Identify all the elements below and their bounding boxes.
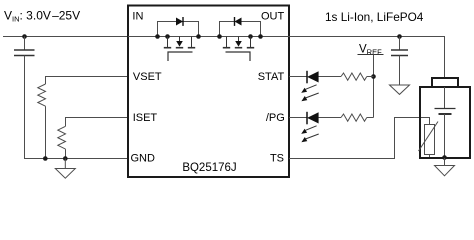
battery pack BT1 outline [420,87,470,158]
node RISET rail junction dot [63,156,68,161]
wire input cap bottom lead to ground rail [24,56,26,159]
svg-text:OUT: OUT [261,10,285,22]
wire input cap top lead [24,37,26,51]
LED D3 (STAT) [306,71,308,84]
wire RISET bottom to rail [65,149,67,158]
wire R2 to VREF vertical [367,117,374,119]
wire output cap bottom lead [399,56,401,86]
wire battery ground stub [444,158,446,166]
wire battery positive lead [444,87,446,109]
LED D3 emission arrows [301,85,319,101]
resistor R2 (/PG) [341,114,367,121]
wire ground stub [64,159,66,169]
wire VSET pin to resistor [46,77,129,85]
transistor Q2 body-diode loop [220,22,261,37]
node Q2 loop-right dot [258,34,263,39]
node Q2 loop-left dot [217,34,222,39]
wire ISET pin to resistor [66,118,129,127]
node Q1 source dot [165,34,170,39]
node input junction dot [22,34,27,39]
transistor Q1 body-diode loop [158,22,199,37]
svg-text:VIN: 3.0V–25V: VIN: 3.0V–25V [4,9,80,24]
wire LED D3 to resistor R1 [319,76,342,78]
svg-text:VSET: VSET [133,71,162,83]
node VREF STAT junction dot [371,74,376,79]
svg-text:1s Li-Ion, LiFePO4: 1s Li-Ion, LiFePO4 [325,10,424,24]
wire internal drain bus [128,36,289,38]
svg-text:ISET: ISET [133,112,158,124]
svg-text:STAT: STAT [258,71,285,83]
node RVSET rail junction dot [43,156,48,161]
wire /PG pin to LED [289,117,307,119]
transistor Q1 [164,37,195,62]
capacitor CIN [14,50,35,56]
capacitor COUT [391,50,408,56]
LED D4 (/PG) [306,112,308,125]
LED D4 emission arrows [301,126,319,142]
svg-text:IN: IN [132,10,143,22]
battery BT1 cell plates [435,108,456,110]
node Q1 loop-left dot [155,34,160,39]
IC U1 BQ25176J box [128,6,289,178]
wire output cap top lead [399,37,401,51]
diode D2 (Q2 body diode) [235,18,242,26]
wire LED D4 to resistor R2 [319,117,342,119]
node battery negative dot [442,155,447,160]
wire VREF vertical [373,55,375,118]
battery BT1 terminal bump [432,78,458,87]
wire OUT pin to battery [289,37,445,79]
svg-text:GND: GND [131,153,156,165]
svg-text:/PG: /PG [266,112,285,124]
node Q2 source dot [248,34,253,39]
ground symbol output cap [390,85,410,94]
thermistor RT1 [425,125,435,155]
resistor R1 (STAT) [341,73,367,80]
ground symbol battery [435,166,455,176]
wire R1 to VREF [367,76,374,78]
wire input VIN to IC IN pin [3,36,128,38]
wire left ground rail to GND pin [24,158,128,160]
wire battery negative lead [444,114,446,158]
resistor RISET [58,126,66,149]
node VREF rail bar [358,54,384,56]
svg-text:TS: TS [270,153,284,165]
resistor RVSET [38,84,46,106]
ground symbol left [55,169,75,179]
diode D1 (Q1 body diode) [176,18,183,26]
wire RVSET bottom to rail [45,106,47,158]
node output cap junction dot [397,34,402,39]
wire thermistor bottom stub [429,155,431,158]
node Q1 loop-right dot [196,34,201,39]
wire STAT pin to LED [289,76,307,78]
wire TS pin to thermistor [289,118,430,159]
svg-text:BQ25176J: BQ25176J [182,162,236,174]
transistor Q2 [223,37,254,62]
